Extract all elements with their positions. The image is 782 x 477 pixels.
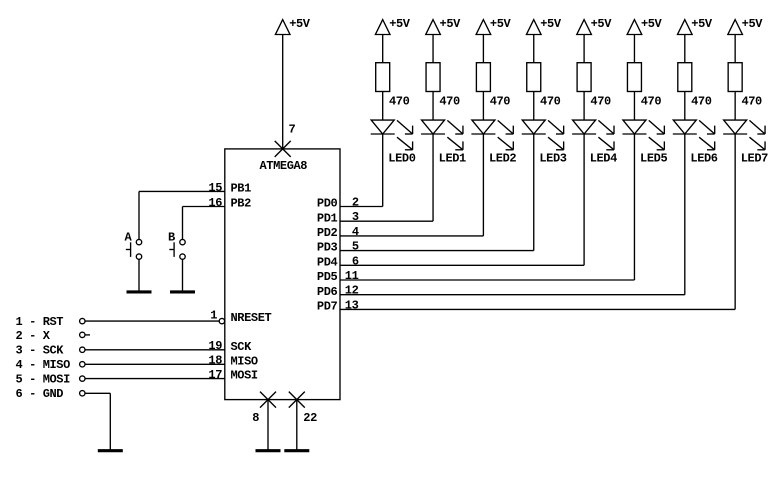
svg-text:4 - MISO: 4 - MISO	[16, 358, 71, 372]
wire LED4 to PD4 pin	[340, 134, 584, 265]
svg-text:MOSI: MOSI	[231, 369, 258, 383]
svg-text:17: 17	[208, 368, 222, 382]
svg-text:+5V: +5V	[440, 17, 462, 31]
svg-text:PB1: PB1	[231, 182, 252, 196]
svg-text:7: 7	[289, 123, 296, 137]
svg-text:PB2: PB2	[231, 197, 252, 211]
svg-text:18: 18	[208, 354, 222, 368]
+5V power symbol (LED5 column)	[627, 17, 662, 35]
wire LED2 to PD2 pin	[340, 134, 483, 236]
svg-text:11: 11	[345, 269, 359, 283]
+5V power symbol (LED4 column)	[577, 17, 612, 35]
wire +5V to resistor R6	[633, 35, 635, 63]
pushbutton B (switch S2)	[169, 239, 185, 259]
LED LED7	[723, 120, 765, 150]
svg-text:470: 470	[439, 95, 460, 109]
svg-text:MISO: MISO	[231, 354, 258, 368]
svg-text:+5V: +5V	[289, 17, 311, 31]
wire +5V to pin 7	[282, 35, 284, 149]
wire +5V to resistor R4	[533, 35, 535, 63]
pin 22 no-connect cross at IC bottom edge	[289, 392, 305, 408]
svg-text:+5V: +5V	[591, 17, 613, 31]
pin 8 no-connect cross at IC bottom edge	[260, 392, 276, 408]
svg-text:+5V: +5V	[389, 17, 411, 31]
svg-text:1 - RST: 1 - RST	[16, 315, 64, 329]
svg-text:PD2: PD2	[317, 226, 338, 240]
ground symbol under button A	[127, 290, 152, 293]
svg-text:LED5: LED5	[640, 152, 667, 166]
svg-text:PD0: PD0	[317, 197, 338, 211]
resistor R4 470 ohm	[527, 63, 541, 92]
LED LED0	[371, 120, 413, 150]
svg-text:+5V: +5V	[641, 17, 663, 31]
svg-text:LED2: LED2	[489, 152, 516, 166]
wire LED0 to PD0 pin	[340, 134, 383, 207]
+5V power symbol (LED3 column)	[526, 17, 561, 35]
svg-text:19: 19	[208, 339, 222, 353]
wire connector GND to ground	[85, 393, 110, 449]
ground symbol under pin 8	[256, 449, 281, 452]
wire +5V to resistor R7	[684, 35, 686, 63]
wire PB1 pin 15 to button A	[139, 191, 225, 239]
svg-text:13: 13	[345, 298, 359, 312]
svg-text:LED6: LED6	[690, 152, 717, 166]
svg-text:8: 8	[252, 411, 259, 425]
IC U1 ATMEGA8 body	[225, 149, 340, 400]
svg-text:LED0: LED0	[388, 152, 415, 166]
wire pin 8 to ground	[267, 400, 269, 450]
+5V power symbol (LED0 column)	[375, 17, 410, 35]
wire resistor R8 to LED7	[734, 92, 736, 121]
svg-text:PD7: PD7	[317, 300, 338, 314]
svg-text:PD6: PD6	[317, 285, 338, 299]
wire connector to SCK	[85, 349, 225, 351]
ground symbol for connector GND	[98, 449, 123, 452]
wire +5V to resistor R3	[482, 35, 484, 63]
svg-text:15: 15	[208, 181, 222, 195]
+5V power symbol (LED7 column)	[728, 17, 763, 35]
svg-text:22: 22	[303, 411, 317, 425]
LED LED4	[572, 120, 614, 150]
wire resistor R4 to LED3	[533, 92, 535, 121]
wire connector to MOSI	[85, 378, 225, 380]
wire RST to NRESET	[85, 320, 219, 322]
wire connector to MISO	[85, 363, 225, 365]
svg-text:3: 3	[352, 210, 359, 224]
svg-text:LED3: LED3	[539, 152, 566, 166]
svg-text:470: 470	[389, 95, 410, 109]
svg-text:+5V: +5V	[490, 17, 512, 31]
svg-text:PD4: PD4	[317, 255, 338, 269]
wire LED1 to PD1 pin	[340, 134, 433, 221]
ground symbol under pin 22	[284, 449, 309, 452]
ground symbol under button B	[170, 290, 195, 293]
resistor R2 470 ohm	[426, 63, 440, 92]
svg-text:SCK: SCK	[231, 340, 253, 354]
svg-text:470: 470	[641, 95, 662, 109]
svg-text:2: 2	[352, 196, 359, 210]
wire LED5 to PD5 pin	[340, 134, 634, 280]
svg-text:NRESET: NRESET	[231, 311, 272, 325]
LED LED3	[522, 120, 564, 150]
resistor R8 470 ohm	[728, 63, 742, 92]
wire pin 22 to ground	[296, 400, 298, 450]
svg-text:470: 470	[490, 95, 511, 109]
svg-text:+5V: +5V	[691, 17, 713, 31]
svg-text:470: 470	[741, 95, 762, 109]
wire +5V to resistor R1	[382, 35, 384, 63]
svg-text:A: A	[125, 230, 133, 244]
wire resistor R5 to LED4	[583, 92, 585, 121]
svg-text:6 - GND: 6 - GND	[16, 387, 64, 401]
svg-text:470: 470	[691, 95, 712, 109]
LED LED2	[471, 120, 513, 150]
svg-text:5 - MOSI: 5 - MOSI	[16, 373, 71, 387]
svg-text:4: 4	[352, 225, 359, 239]
NRESET inversion bubble	[219, 318, 224, 323]
connector terminal circle for 3 - SCK	[80, 347, 85, 352]
wire LED6 to PD6 pin	[340, 134, 685, 295]
pin 7 no-connect cross at IC top edge	[275, 141, 291, 157]
svg-text:12: 12	[345, 284, 359, 298]
svg-text:16: 16	[208, 196, 222, 210]
+5V power symbol (LED2 column)	[476, 17, 511, 35]
LED LED1	[421, 120, 463, 150]
wire +5V to resistor R8	[734, 35, 736, 63]
wire LED7 to PD7 pin	[340, 134, 735, 309]
svg-text:B: B	[168, 230, 175, 244]
resistor R3 470 ohm	[476, 63, 490, 92]
svg-text:2 - X: 2 - X	[16, 329, 51, 343]
wire +5V to resistor R5	[583, 35, 585, 63]
wire resistor R7 to LED6	[684, 92, 686, 121]
connector terminal circle for 5 - MOSI	[80, 376, 85, 381]
wire resistor R6 to LED5	[633, 92, 635, 121]
wire button A to ground	[138, 259, 140, 290]
svg-text:1: 1	[210, 309, 217, 323]
svg-text:3 - SCK: 3 - SCK	[16, 344, 65, 358]
svg-text:+5V: +5V	[742, 17, 764, 31]
wire resistor R2 to LED1	[432, 92, 434, 121]
svg-text:PD3: PD3	[317, 241, 338, 255]
resistor R1 470 ohm	[376, 63, 390, 92]
LED LED6	[673, 120, 715, 150]
connector terminal circle for 4 - MISO	[80, 362, 85, 367]
wire stub on connector pin 2 X	[85, 334, 90, 336]
resistor R5 470 ohm	[577, 63, 591, 92]
wire PB2 pin 16 to button B	[183, 207, 225, 240]
connector terminal circle for 1 - RST	[80, 318, 85, 323]
wire button B to ground	[182, 259, 184, 290]
resistor R7 470 ohm	[678, 63, 692, 92]
wire resistor R1 to LED0	[382, 92, 384, 121]
pushbutton A (switch S1)	[126, 239, 142, 259]
resistor R6 470 ohm	[627, 63, 641, 92]
svg-text:ATMEGA8: ATMEGA8	[259, 159, 307, 173]
+5V power symbol (pin 7 supply)	[275, 17, 310, 35]
svg-text:LED4: LED4	[590, 152, 617, 166]
LED LED5	[622, 120, 664, 150]
svg-text:470: 470	[540, 95, 561, 109]
connector terminal circle for 2 - X	[80, 332, 85, 337]
svg-text:+5V: +5V	[540, 17, 562, 31]
svg-text:6: 6	[352, 254, 359, 268]
svg-text:PD1: PD1	[317, 211, 338, 225]
svg-text:5: 5	[352, 240, 359, 254]
wire resistor R3 to LED2	[482, 92, 484, 121]
connector terminal circle for 6 - GND	[80, 391, 85, 396]
svg-text:LED7: LED7	[741, 152, 768, 166]
wire +5V to resistor R2	[432, 35, 434, 63]
+5V power symbol (LED6 column)	[678, 17, 713, 35]
svg-text:470: 470	[590, 95, 611, 109]
wire LED3 to PD3 pin	[340, 134, 534, 251]
svg-text:LED1: LED1	[439, 152, 466, 166]
+5V power symbol (LED1 column)	[426, 17, 461, 35]
svg-text:PD5: PD5	[317, 270, 338, 284]
